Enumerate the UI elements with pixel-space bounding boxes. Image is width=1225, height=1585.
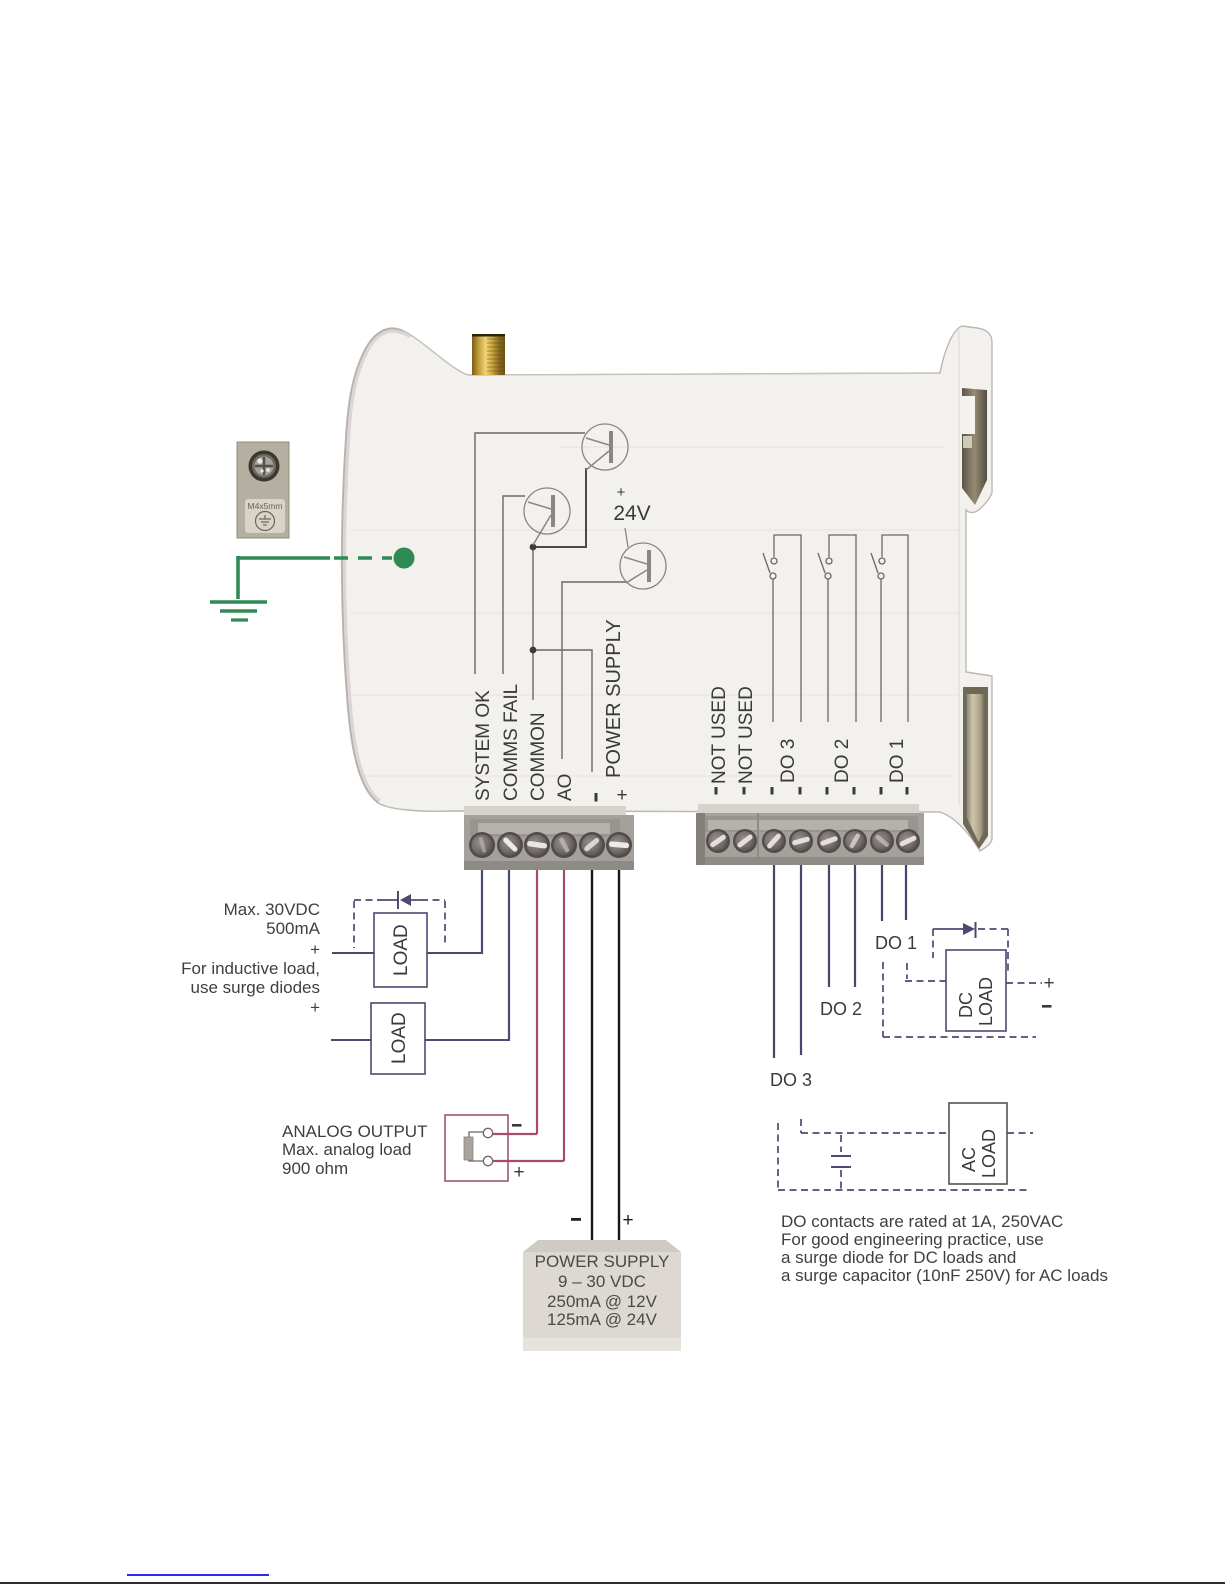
svg-text:125mA @ 24V: 125mA @ 24V bbox=[547, 1310, 658, 1329]
svg-text:For good engineering practice,: For good engineering practice, use bbox=[781, 1230, 1044, 1249]
svg-text:+: + bbox=[1043, 973, 1054, 994]
svg-text:ANALOG OUTPUT: ANALOG OUTPUT bbox=[282, 1122, 427, 1141]
svg-text:DO 3: DO 3 bbox=[770, 1070, 812, 1090]
svg-text:DO 1: DO 1 bbox=[875, 933, 917, 953]
svg-text:AO: AO bbox=[555, 774, 576, 801]
svg-text:+: + bbox=[616, 785, 627, 806]
svg-text:Max. analog load: Max. analog load bbox=[282, 1140, 411, 1159]
svg-text:AC: AC bbox=[959, 1147, 979, 1172]
svg-text:NOT USED: NOT USED bbox=[736, 686, 757, 784]
svg-text:9 – 30 VDC: 9 – 30 VDC bbox=[558, 1272, 646, 1291]
svg-text:For inductive load,: For inductive load, bbox=[181, 959, 320, 978]
svg-text:DO contacts are rated at 1A, 2: DO contacts are rated at 1A, 250VAC bbox=[781, 1212, 1063, 1231]
svg-text:LOAD: LOAD bbox=[391, 924, 412, 976]
svg-text:Max. 30VDC: Max. 30VDC bbox=[224, 900, 320, 919]
svg-text:NOT USED: NOT USED bbox=[709, 686, 730, 784]
svg-text:use surge diodes: use surge diodes bbox=[191, 978, 320, 997]
svg-text:DC: DC bbox=[956, 992, 976, 1018]
svg-text:24V: 24V bbox=[613, 502, 650, 525]
svg-text:a surge capacitor (10nF 250V): a surge capacitor (10nF 250V) for AC loa… bbox=[781, 1266, 1108, 1285]
svg-text:500mA: 500mA bbox=[266, 919, 321, 938]
svg-text:+: + bbox=[622, 1210, 633, 1231]
svg-text:SYSTEM OK: SYSTEM OK bbox=[473, 690, 494, 801]
svg-text:a surge diode for DC loads and: a surge diode for DC loads and bbox=[781, 1248, 1016, 1267]
svg-text:DO 2: DO 2 bbox=[832, 739, 853, 783]
svg-text:DO 1: DO 1 bbox=[887, 739, 908, 783]
svg-text:POWER SUPPLY: POWER SUPPLY bbox=[603, 619, 625, 778]
svg-text:+: + bbox=[310, 998, 320, 1017]
svg-text:COMMS FAIL: COMMS FAIL bbox=[501, 684, 522, 801]
svg-text:900 ohm: 900 ohm bbox=[282, 1159, 348, 1178]
svg-text:LOAD: LOAD bbox=[389, 1012, 410, 1064]
svg-text:COMMON: COMMON bbox=[528, 712, 549, 801]
svg-text:250mA @ 12V: 250mA @ 12V bbox=[547, 1292, 658, 1311]
svg-text:LOAD: LOAD bbox=[976, 977, 996, 1026]
svg-text:DO 2: DO 2 bbox=[820, 999, 862, 1019]
svg-text:+: + bbox=[310, 940, 320, 959]
svg-text:+: + bbox=[513, 1162, 524, 1183]
svg-text:LOAD: LOAD bbox=[979, 1129, 999, 1178]
svg-text:+: + bbox=[617, 484, 626, 501]
svg-text:M4x5mm: M4x5mm bbox=[248, 501, 283, 511]
svg-text:DO 3: DO 3 bbox=[778, 739, 799, 783]
svg-text:POWER SUPPLY: POWER SUPPLY bbox=[535, 1252, 670, 1271]
